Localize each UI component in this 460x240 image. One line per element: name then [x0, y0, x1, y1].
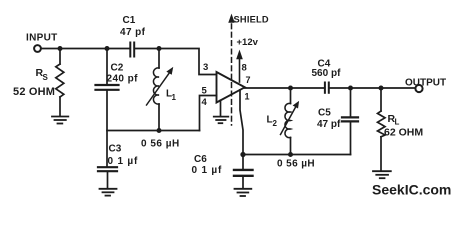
ground below RL [373, 171, 391, 178]
capacitor C5 [342, 117, 358, 121]
wire C6 to ground [242, 177, 244, 188]
wire L2 top lead [290, 88, 292, 104]
svg-text:C2: C2 [111, 63, 124, 74]
wire L2 bottom lead [290, 138, 292, 155]
svg-text:0 56 µH: 0 56 µH [277, 159, 315, 170]
L1 tuning arrow [147, 68, 173, 106]
wire RS top lead [59, 49, 61, 65]
wire C1 right to pin3 corner [134, 49, 216, 75]
node junction C2 [105, 47, 108, 50]
ground below op-amp [214, 117, 229, 124]
L2 tuning arrow [281, 102, 299, 135]
svg-text:C6: C6 [194, 154, 207, 165]
node junction L2 bus [289, 153, 292, 156]
svg-text:47 pf: 47 pf [317, 119, 341, 130]
svg-text:0 1 µf: 0 1 µf [108, 156, 139, 167]
wire C6 top lead [242, 155, 244, 169]
node junction L1 bus [157, 129, 160, 132]
wire C4 to OUTPUT [329, 87, 415, 89]
svg-text:52 OHM: 52 OHM [13, 86, 55, 98]
node junction L2 [289, 86, 292, 89]
node OUTPUT terminal [415, 85, 422, 92]
svg-text:560 pf: 560 pf [312, 68, 342, 79]
svg-text:8: 8 [242, 63, 247, 74]
wire bottom-left bus [107, 130, 200, 132]
svg-text:SHIELD: SHIELD [234, 15, 269, 25]
svg-text:5: 5 [202, 86, 208, 97]
svg-text:L: L [395, 118, 400, 127]
wire bottom-right bus [243, 154, 351, 156]
shield dashed line [231, 24, 233, 125]
wire op-amp output to C4 [245, 87, 325, 89]
wire C2 bottom to C3 top (through bus) [106, 91, 108, 166]
svg-text:0 56 µH: 0 56 µH [141, 139, 180, 150]
wire RL top lead [380, 88, 382, 111]
wire C5 bottom lead [350, 123, 352, 155]
svg-text:C5: C5 [318, 108, 331, 119]
wire C2 top lead [106, 49, 108, 84]
capacitor C2 [96, 85, 119, 90]
resistor R_L [378, 111, 386, 137]
node junction L1 [157, 47, 160, 50]
svg-text:INPUT: INPUT [26, 33, 58, 44]
svg-text:2: 2 [273, 119, 278, 128]
node junction C5 [349, 86, 352, 89]
ground below RS [52, 117, 68, 124]
capacitor C6 [234, 170, 253, 176]
svg-text:C3: C3 [109, 144, 122, 155]
op-amp U1 triangle [217, 72, 245, 103]
svg-text:OUTPUT: OUTPUT [405, 78, 446, 89]
wire pin1 down to C6 junction [240, 90, 243, 155]
svg-text:7: 7 [246, 75, 251, 85]
svg-text:3: 3 [203, 62, 208, 73]
ground below C3 [100, 189, 117, 196]
resistor R_S [56, 64, 64, 97]
svg-text:S: S [43, 73, 49, 82]
wire C5 top lead [350, 88, 352, 116]
node INPUT terminal [34, 45, 41, 52]
inductor L2 [285, 103, 291, 137]
svg-text:0 1 µf: 0 1 µf [192, 165, 223, 176]
svg-text:1: 1 [172, 93, 177, 102]
node junction RS [58, 47, 61, 50]
ground below C6 [235, 189, 252, 196]
wire L1 bottom lead [158, 104, 160, 131]
node junction pin1/C6 [241, 153, 245, 157]
svg-text:4: 4 [202, 97, 208, 108]
capacitor C3 [98, 167, 117, 171]
node junction RL [379, 86, 382, 89]
svg-text:62 OHM: 62 OHM [384, 127, 423, 139]
inductor L1 [153, 68, 159, 104]
capacitor C4 [325, 83, 329, 93]
capacitor C1 [130, 43, 134, 57]
wire C3 to ground [107, 172, 109, 188]
svg-text:C1: C1 [123, 15, 136, 26]
wire pin5 feed [200, 96, 217, 131]
shield arrowhead [229, 15, 235, 23]
svg-text:240 pf: 240 pf [107, 74, 139, 85]
wire pin4 to ground [220, 100, 222, 116]
svg-text:47 pf: 47 pf [120, 27, 146, 38]
svg-text:SeekIC.com: SeekIC.com [372, 182, 451, 198]
wire L1 top lead [158, 49, 160, 69]
svg-text:1: 1 [245, 92, 250, 102]
svg-text:+12v: +12v [237, 37, 259, 48]
wire input to C1 left [41, 48, 130, 50]
wire RL bottom lead [380, 137, 382, 171]
pin 8 +12v lead with arrow [237, 51, 243, 83]
wire RS bottom lead [59, 97, 61, 116]
